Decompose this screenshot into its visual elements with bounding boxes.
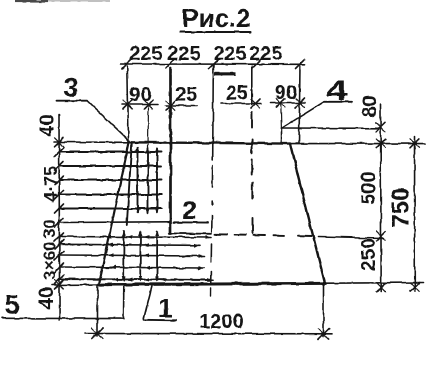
right dim line B (750) [414,137,416,292]
step line (element 4) y=128 [282,127,382,129]
svg-text:3×60: 3×60 [40,241,59,279]
tick at x=126.5 [122,60,131,69]
tick at x=256.5 [252,60,261,69]
label 250 [358,238,380,271]
foundation bottom edge [99,283,325,284]
tick at x=170 [166,60,175,69]
svg-text:90: 90 [129,84,151,106]
svg-text:225: 225 [167,43,200,65]
lower mesh row 5 [59,279,213,280]
dim 90 right [270,102,305,104]
svg-text:1: 1 [158,293,172,323]
label 225 #3 [213,43,246,65]
top edge extension left [54,141,129,143]
inner face line (tilted) [127,142,132,225]
cage bar b [147,148,149,213]
bar 2 bottom horizontal [169,232,211,234]
bottom edge extension left [52,284,99,286]
label 225 #2 [167,43,200,65]
svg-text:225: 225 [249,43,282,65]
label 4·75 [41,166,61,202]
svg-text:225: 225 [129,43,162,65]
dim 25 left [166,105,198,107]
upper rebar row 4 [59,194,162,196]
lower mesh row 2 [59,244,200,245]
top dimension line 4x225 [121,63,305,65]
label 225 #4 [249,43,282,65]
cage bar a [137,148,139,213]
lower mesh row 1 [59,237,211,238]
svg-text:4·75: 4·75 [41,166,61,202]
page edge mark [15,0,110,3]
tick 80 top [376,123,385,132]
callout 5 [4,290,19,320]
svg-text:25: 25 [226,83,248,105]
svg-text:Рис.2: Рис.2 [181,3,250,33]
chain ticks [55,138,64,147]
tick at ground [376,139,385,148]
svg-text:225: 225 [213,43,246,65]
foundation left slant edge [99,142,129,284]
row 6 (30 gap line) [59,221,170,224]
svg-text:1200: 1200 [199,311,244,333]
upper rebar row 5 [59,208,162,210]
axis flag [215,72,236,76]
svg-text:80: 80 [359,95,381,117]
callout 2 [182,195,196,225]
svg-text:750: 750 [388,187,415,227]
cage bar c [156,148,158,213]
bottom edge extension right [325,282,423,285]
upper rebar row 3 [59,179,162,181]
tick cross strokes [55,99,420,292]
svg-text:250: 250 [358,238,380,271]
upper rebar row 2 [59,165,162,167]
title Рис.2 [181,3,250,33]
callout 3 [64,72,78,102]
row arrows [133,150,162,210]
svg-text:5: 5 [4,290,19,320]
mesh bar c [156,232,158,281]
rebar bar 2 (thick vertical) [169,68,172,233]
svg-text:2: 2 [182,195,196,225]
top edge extension right [290,143,425,145]
upper rebar row 1 [59,151,162,153]
mesh bar b [139,232,141,281]
tick bottom [377,283,386,292]
label 500 [358,171,380,204]
cage bar arrows [136,147,159,215]
svg-text:40: 40 [37,114,59,136]
bottom dim 1200 extension left [97,285,99,336]
bottom dim line 1200 [85,333,332,335]
hidden dashed bar right x=252 [251,66,253,105]
tick at 500/250 [377,231,386,240]
mesh arrows [106,235,213,282]
extension 90R to step [280,104,283,128]
hidden dashed horizontal y=235 [215,233,227,235]
lower mesh row 4 [59,267,204,268]
label 3×60 [40,241,59,279]
mesh bar a [123,232,125,281]
dim 90 left [122,104,158,106]
bottom dim 1200 extension right [323,283,325,336]
svg-text:25: 25 [175,84,197,106]
title underline [180,31,251,33]
svg-text:3: 3 [64,72,78,102]
label 80 [359,95,381,117]
center axis line (dash-dot) [212,64,214,79]
cage bar b extension to dim [147,105,150,149]
label 225 #1 [129,43,162,65]
callout 1 [144,286,153,320]
left chain dimension line [58,115,61,320]
extension line right x=300 [299,66,300,143]
extension line left x=127.5 [127,66,128,142]
svg-text:500: 500 [358,171,380,204]
mesh bar arrows [122,231,159,283]
svg-text:30: 30 [40,219,59,238]
lower mesh row 3 [59,255,204,256]
label 40 bottom [36,287,58,309]
label 30 [40,219,59,238]
step riser x=281.5 [281,128,283,143]
tick at x=300 [296,60,305,69]
label 40 top [37,114,59,136]
foundation top edge [129,142,290,143]
callout 4 [327,75,348,107]
tick at x=213.5 [209,60,218,69]
label 1200 [199,311,244,333]
svg-text:40: 40 [36,287,58,309]
label 750 [388,187,415,227]
right dim line A (80/500/250) [380,104,383,291]
dim 25 right [221,103,261,105]
foundation right slant edge [290,144,325,284]
